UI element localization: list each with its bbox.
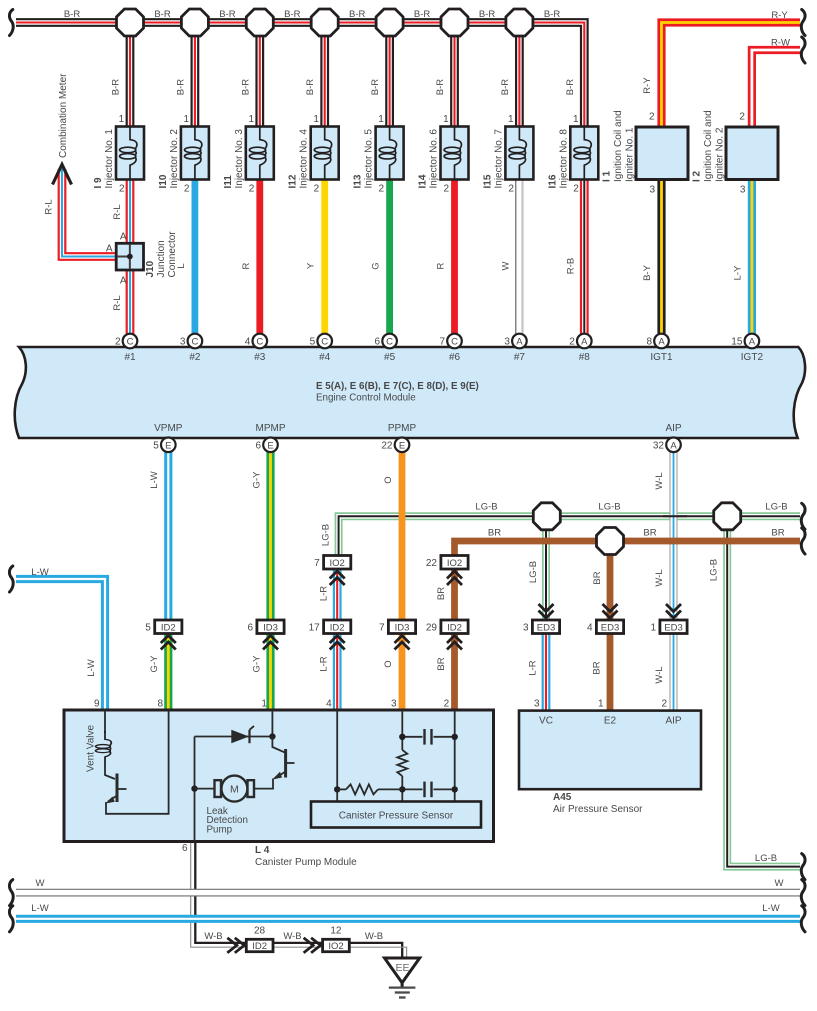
svg-text:#3: #3 [254,352,266,363]
svg-text:I 9: I 9 [93,177,104,189]
svg-text:R-L: R-L [112,204,123,219]
svg-text:2: 2 [508,184,514,195]
svg-text:Injector No. 1: Injector No. 1 [104,129,115,189]
svg-text:E 5(A), E 6(B), E 7(C), E 8(D): E 5(A), E 6(B), E 7(C), E 8(D), E 9(E) [316,381,479,392]
svg-text:R-L: R-L [112,295,123,310]
svg-text:3: 3 [523,623,529,634]
svg-text:Connector: Connector [167,231,178,278]
svg-text:W-B: W-B [283,931,301,942]
svg-text:28: 28 [254,926,266,937]
svg-text:B-R: B-R [284,9,301,20]
svg-text:Combination Meter: Combination Meter [58,73,69,158]
svg-text:LG-B: LG-B [598,502,620,513]
svg-text:6: 6 [247,623,253,634]
svg-text:2: 2 [115,337,121,348]
svg-text:R: R [436,262,447,269]
svg-text:I15: I15 [482,174,493,188]
svg-text:B-R: B-R [219,9,236,20]
svg-text:AIP: AIP [665,716,681,727]
svg-text:IO2: IO2 [328,941,343,952]
svg-text:7: 7 [314,558,320,569]
svg-text:A45: A45 [553,792,572,803]
svg-text:Engine Control Module: Engine Control Module [316,393,416,404]
svg-text:ID2: ID2 [447,622,462,633]
svg-text:15: 15 [731,337,743,348]
svg-text:2: 2 [569,337,575,348]
svg-text:C: C [127,337,134,348]
svg-text:ED3: ED3 [601,622,619,633]
svg-text:BR: BR [771,528,784,539]
svg-text:Injector No. 6: Injector No. 6 [429,129,440,189]
svg-text:LG-B: LG-B [709,559,720,581]
svg-text:4: 4 [326,699,332,710]
svg-text:B-R: B-R [154,9,171,20]
svg-text:BR: BR [436,587,447,600]
svg-text:7: 7 [439,337,445,348]
svg-text:B-R: B-R [435,79,446,96]
svg-text:W-L: W-L [654,666,665,683]
svg-text:R-B: R-B [565,258,576,274]
svg-text:7: 7 [379,623,385,634]
svg-text:R: R [241,262,252,269]
svg-text:3: 3 [504,337,510,348]
svg-text:22: 22 [381,440,393,451]
svg-text:MPMP: MPMP [256,423,286,434]
svg-text:ID2: ID2 [161,622,176,633]
svg-text:4: 4 [245,337,251,348]
svg-text:4: 4 [587,623,593,634]
svg-text:Injector No. 7: Injector No. 7 [493,129,504,189]
svg-text:Canister Pump Module: Canister Pump Module [255,857,357,868]
svg-text:A: A [120,276,127,287]
svg-text:9: 9 [94,699,100,710]
svg-text:BR: BR [436,657,447,670]
svg-text:2: 2 [739,112,745,123]
svg-text:1: 1 [313,114,319,125]
svg-text:G-Y: G-Y [252,471,263,489]
svg-text:R-W: R-W [771,38,790,49]
svg-text:1: 1 [573,114,579,125]
svg-text:Injector No. 4: Injector No. 4 [299,129,310,189]
svg-text:J10: J10 [145,260,156,277]
svg-text:ID3: ID3 [395,622,410,633]
svg-text:22: 22 [426,558,438,569]
svg-text:1: 1 [378,114,384,125]
svg-text:#6: #6 [449,352,461,363]
svg-text:VC: VC [539,716,553,727]
svg-text:LG-B: LG-B [528,561,539,583]
svg-text:IO2: IO2 [447,558,462,569]
svg-text:BR: BR [643,528,656,539]
svg-text:C: C [256,337,263,348]
svg-text:G: G [371,262,382,269]
svg-text:32: 32 [653,440,665,451]
svg-text:2: 2 [661,699,667,710]
svg-text:B-R: B-R [175,79,186,96]
svg-text:B-R: B-R [370,79,381,96]
svg-text:Injector No. 5: Injector No. 5 [364,129,375,189]
svg-text:VPMP: VPMP [154,423,183,434]
svg-text:#5: #5 [384,352,396,363]
svg-text:5: 5 [153,440,159,451]
svg-text:ID2: ID2 [330,622,345,633]
svg-text:2: 2 [573,184,579,195]
svg-text:Injector No. 2: Injector No. 2 [169,129,180,189]
svg-text:A: A [516,337,523,348]
svg-text:R-Y: R-Y [642,77,653,94]
svg-text:A: A [749,337,756,348]
svg-text:B-R: B-R [111,79,122,96]
svg-text:E2: E2 [604,716,617,727]
svg-text:I 2: I 2 [692,170,703,182]
svg-text:L-R: L-R [528,660,539,675]
svg-text:1: 1 [443,114,449,125]
svg-text:Y: Y [306,262,317,269]
svg-text:B-R: B-R [500,79,511,96]
svg-text:C: C [386,337,393,348]
svg-text:#4: #4 [319,352,331,363]
svg-text:I14: I14 [418,174,429,188]
svg-text:5: 5 [310,337,316,348]
svg-text:1: 1 [248,114,254,125]
svg-text:#2: #2 [189,352,201,363]
svg-text:A: A [106,244,113,255]
svg-text:G-Y: G-Y [252,655,263,673]
svg-text:IGT1: IGT1 [650,352,673,363]
svg-text:LG-B: LG-B [755,853,777,864]
svg-text:L-W: L-W [31,903,48,914]
svg-text:3: 3 [391,699,397,710]
svg-text:2: 2 [443,184,449,195]
svg-text:BR: BR [592,571,603,584]
svg-text:R-Y: R-Y [771,10,788,21]
svg-text:Junction: Junction [156,240,167,277]
svg-text:Injector No. 8: Injector No. 8 [558,129,569,189]
svg-text:I11: I11 [223,175,234,189]
svg-text:29: 29 [426,623,438,634]
svg-text:2: 2 [649,112,655,123]
svg-text:2: 2 [314,184,320,195]
svg-text:Injector No. 3: Injector No. 3 [234,129,245,189]
svg-text:2: 2 [119,184,125,195]
svg-text:B-R: B-R [479,9,496,20]
svg-text:Ignition Coil and: Ignition Coil and [613,110,624,182]
svg-text:#8: #8 [579,352,591,363]
svg-text:O: O [383,660,394,667]
svg-text:B-Y: B-Y [642,264,653,281]
svg-text:IO2: IO2 [330,558,345,569]
svg-text:B-R: B-R [565,79,576,96]
svg-text:W-B: W-B [204,931,222,942]
svg-text:I10: I10 [158,174,169,188]
svg-text:W-L: W-L [654,569,665,586]
svg-text:W-B: W-B [365,931,383,942]
svg-text:1: 1 [261,699,267,710]
svg-text:L-W: L-W [31,567,48,578]
svg-text:3: 3 [649,185,655,196]
svg-text:Air Pressure Sensor: Air Pressure Sensor [553,804,643,815]
svg-text:M: M [230,783,239,795]
svg-text:3: 3 [534,699,540,710]
svg-text:I13: I13 [353,174,364,188]
svg-text:AIP: AIP [665,423,681,434]
svg-text:2: 2 [249,184,255,195]
svg-text:1: 1 [119,114,125,125]
svg-text:L-W: L-W [149,471,160,488]
svg-text:PPMP: PPMP [388,423,417,434]
svg-text:12: 12 [330,926,342,937]
svg-text:Vent Valve: Vent Valve [86,724,97,772]
svg-text:B-R: B-R [64,9,81,20]
svg-text:3: 3 [180,337,186,348]
svg-text:I12: I12 [288,174,299,188]
svg-text:C: C [321,337,328,348]
svg-text:6: 6 [255,440,261,451]
svg-text:2: 2 [184,184,190,195]
svg-text:G-Y: G-Y [149,655,160,673]
svg-text:Igniter No. 2: Igniter No. 2 [714,127,725,182]
svg-text:O: O [383,476,394,483]
svg-text:L-W: L-W [86,659,97,676]
svg-text:B-R: B-R [349,9,366,20]
svg-text:5: 5 [145,623,151,634]
svg-text:EE: EE [395,962,409,974]
svg-text:B-R: B-R [414,9,431,20]
svg-text:6: 6 [375,337,381,348]
svg-text:1: 1 [508,114,514,125]
svg-text:8: 8 [646,337,652,348]
svg-text:ED3: ED3 [664,622,682,633]
svg-text:A: A [658,337,665,348]
svg-text:6: 6 [182,843,188,854]
svg-text:ED3: ED3 [537,622,555,633]
svg-text:B-R: B-R [544,9,561,20]
svg-text:2: 2 [444,699,450,710]
svg-text:ID3: ID3 [263,622,278,633]
svg-text:L 4: L 4 [255,845,270,856]
svg-text:A: A [581,337,588,348]
svg-text:BR: BR [592,661,603,674]
svg-text:3: 3 [740,185,746,196]
svg-text:L-R: L-R [319,586,330,601]
svg-text:E: E [165,440,171,451]
svg-text:2: 2 [379,184,385,195]
svg-text:LG-B: LG-B [321,524,332,546]
svg-text:C: C [451,337,458,348]
svg-text:8: 8 [158,699,164,710]
svg-text:E: E [399,440,405,451]
svg-text:L-R: L-R [319,656,330,671]
svg-text:1: 1 [598,699,604,710]
svg-text:A: A [120,232,127,243]
svg-text:LG-B: LG-B [475,502,497,513]
svg-text:B-R: B-R [305,79,316,96]
svg-text:W: W [36,878,45,889]
svg-text:Ignition Coil and: Ignition Coil and [703,110,714,182]
svg-text:BR: BR [488,528,501,539]
svg-text:C: C [191,337,198,348]
svg-text:Pump: Pump [207,824,233,835]
svg-text:LG-B: LG-B [765,502,787,513]
svg-text:ID2: ID2 [252,941,267,952]
svg-text:Canister Pressure Sensor: Canister Pressure Sensor [339,811,454,822]
svg-text:B-R: B-R [240,79,251,96]
svg-text:#7: #7 [514,352,526,363]
svg-text:E: E [267,440,273,451]
svg-text:17: 17 [309,623,321,634]
svg-text:1: 1 [650,623,656,634]
svg-text:L-Y: L-Y [732,265,743,280]
svg-text:L-W: L-W [762,903,779,914]
svg-text:#1: #1 [124,352,136,363]
svg-text:I16: I16 [547,174,558,188]
svg-text:I 1: I 1 [602,170,613,182]
svg-text:IGT2: IGT2 [741,352,764,363]
svg-text:W-L: W-L [654,472,665,489]
svg-text:1: 1 [184,114,190,125]
svg-text:R-L: R-L [44,199,55,214]
svg-text:Igniter No. 1: Igniter No. 1 [624,127,635,182]
svg-text:A: A [670,440,677,451]
svg-text:W: W [500,261,511,270]
svg-text:W: W [775,878,784,889]
